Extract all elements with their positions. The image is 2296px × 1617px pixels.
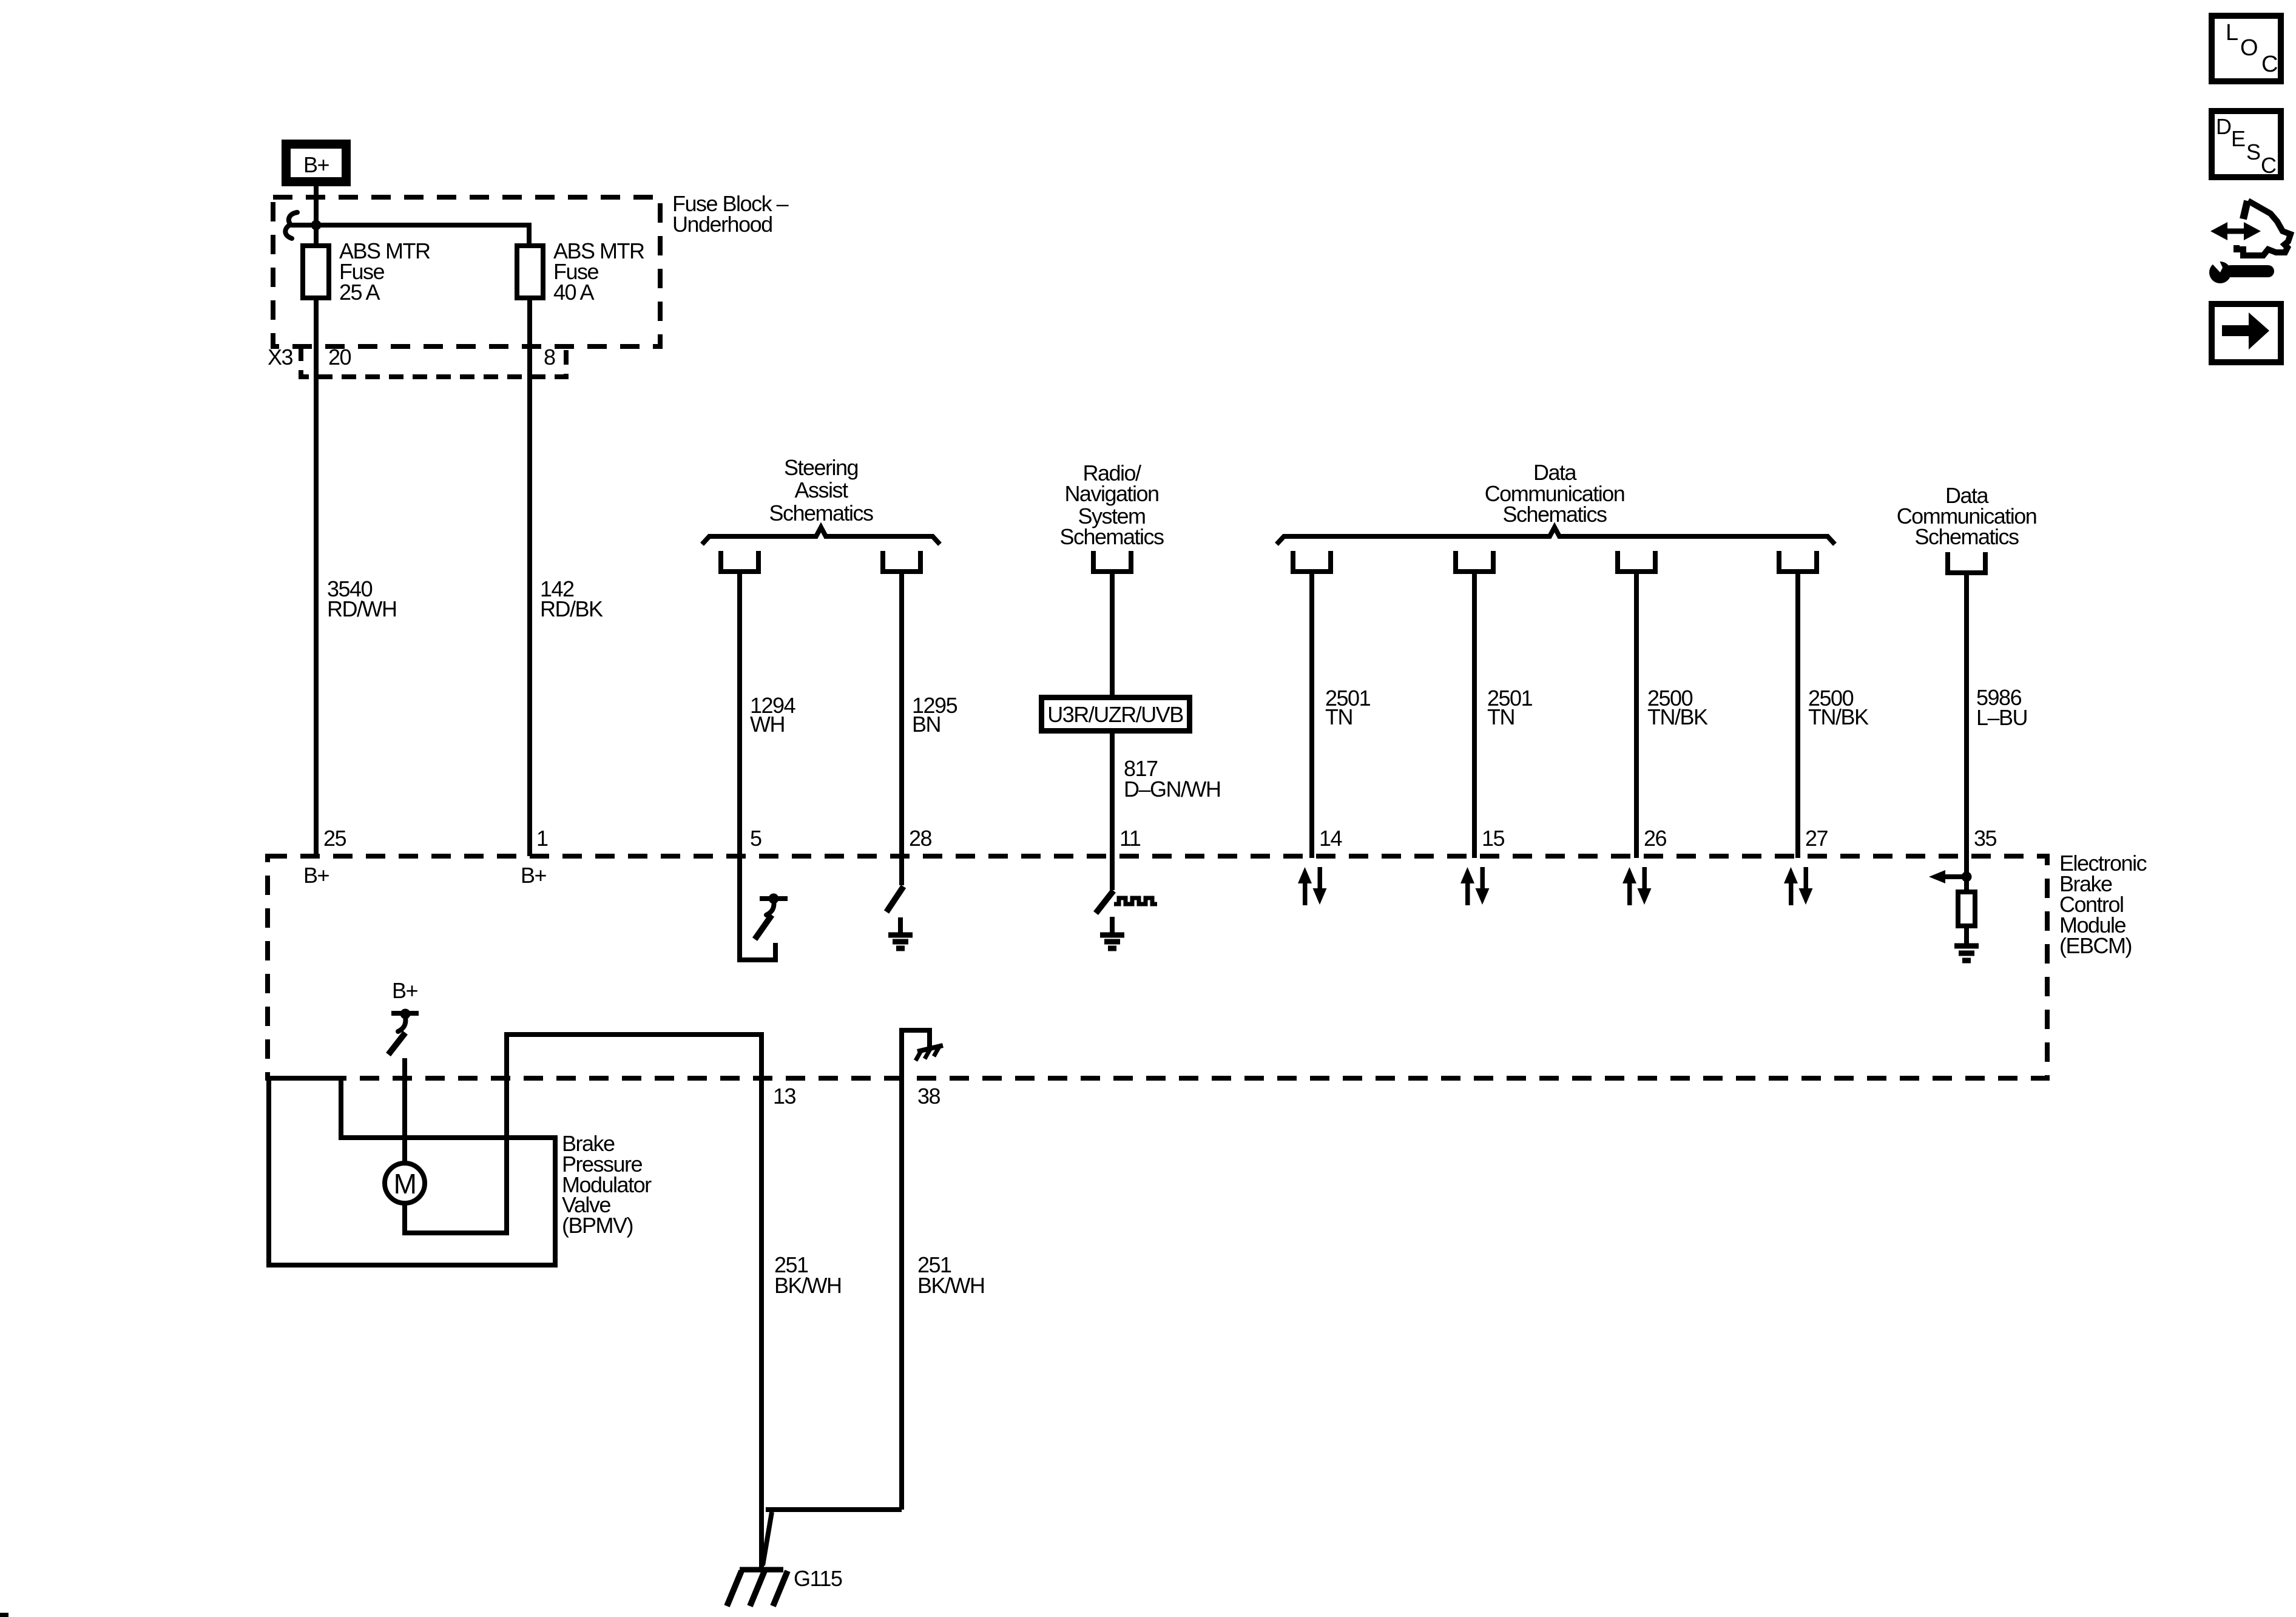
- svg-text:Underhood: Underhood: [672, 212, 772, 237]
- svg-text:Assist: Assist: [794, 478, 848, 502]
- svg-text:B+: B+: [303, 152, 329, 177]
- svg-text:20: 20: [328, 345, 351, 370]
- svg-text:38: 38: [917, 1084, 940, 1109]
- svg-text:L: L: [2226, 20, 2238, 46]
- svg-text:X3: X3: [268, 345, 293, 370]
- svg-text:BK/WH: BK/WH: [774, 1273, 842, 1298]
- svg-text:25 A: 25 A: [339, 280, 380, 305]
- svg-text:15: 15: [1482, 826, 1505, 851]
- svg-text:Navigation: Navigation: [1064, 481, 1158, 506]
- svg-text:Schematics: Schematics: [1914, 524, 2019, 549]
- svg-text:25: 25: [323, 826, 346, 851]
- svg-text:TN/BK: TN/BK: [1808, 704, 1869, 729]
- svg-text:8: 8: [544, 345, 555, 370]
- svg-text:11: 11: [1119, 826, 1141, 851]
- svg-text:14: 14: [1319, 826, 1342, 851]
- svg-text:RD/WH: RD/WH: [327, 596, 396, 621]
- svg-text:1: 1: [536, 826, 548, 851]
- svg-text:WH: WH: [750, 712, 785, 737]
- svg-text:B+: B+: [521, 863, 547, 888]
- svg-text:D–GN/WH: D–GN/WH: [1124, 777, 1221, 802]
- svg-text:L–BU: L–BU: [1976, 705, 2027, 730]
- svg-text:BK/WH: BK/WH: [917, 1273, 985, 1298]
- svg-text:G115: G115: [794, 1566, 842, 1591]
- svg-text:BN: BN: [912, 712, 940, 737]
- svg-text:B+: B+: [392, 978, 418, 1003]
- svg-text:13: 13: [773, 1084, 796, 1109]
- svg-text:26: 26: [1644, 826, 1667, 851]
- svg-text:E: E: [2231, 126, 2245, 151]
- svg-text:O: O: [2240, 35, 2257, 61]
- svg-text:RD/BK: RD/BK: [540, 596, 603, 621]
- svg-text:35: 35: [1974, 826, 1997, 851]
- svg-text:Steering: Steering: [784, 455, 858, 480]
- svg-text:M: M: [394, 1168, 416, 1200]
- svg-text:Schematics: Schematics: [769, 501, 873, 525]
- svg-text:B+: B+: [303, 863, 329, 888]
- svg-text:5: 5: [750, 826, 761, 851]
- svg-text:TN: TN: [1487, 704, 1514, 729]
- svg-text:27: 27: [1805, 826, 1828, 851]
- svg-text:(EBCM): (EBCM): [2059, 933, 2132, 958]
- svg-text:C: C: [2261, 52, 2277, 77]
- svg-text:Schematics: Schematics: [1059, 524, 1164, 549]
- svg-text:40 A: 40 A: [553, 280, 595, 305]
- svg-text:U3R/UZR/UVB: U3R/UZR/UVB: [1047, 702, 1183, 727]
- svg-text:TN: TN: [1325, 704, 1352, 729]
- svg-text:(BPMV): (BPMV): [562, 1213, 633, 1238]
- svg-text:C: C: [2261, 153, 2276, 178]
- svg-text:Schematics: Schematics: [1502, 502, 1607, 527]
- svg-text:S: S: [2246, 140, 2260, 164]
- svg-text:D: D: [2216, 114, 2231, 139]
- svg-text:28: 28: [909, 826, 932, 851]
- svg-text:TN/BK: TN/BK: [1647, 704, 1708, 729]
